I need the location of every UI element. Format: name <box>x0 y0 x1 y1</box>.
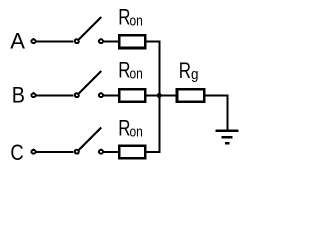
resistor R_g body <box>177 89 204 102</box>
resistor R_on (row B) body <box>119 89 145 102</box>
wire B input to switch <box>37 95 74 97</box>
wire R_g to ground <box>205 96 227 130</box>
wire resistor B to node <box>147 95 160 97</box>
resistor R_g label <box>179 59 199 84</box>
terminal circle B <box>32 93 36 97</box>
svg-text:R: R <box>118 6 130 31</box>
switch SB blade <box>79 71 101 93</box>
switch SB right terminal circle <box>99 93 103 97</box>
node A label <box>10 29 25 54</box>
junction node dot <box>156 92 163 99</box>
switch SA blade <box>79 17 101 39</box>
wire A input to switch <box>37 41 74 43</box>
wire switch A to resistor <box>104 41 118 43</box>
wire resistor A to bus <box>147 41 160 43</box>
resistor R_on (row C) body <box>119 146 145 159</box>
wire C input to switch <box>37 151 74 153</box>
switch SA pivot circle <box>75 39 79 43</box>
wire node to R_g <box>159 95 175 97</box>
svg-text:g: g <box>191 66 199 83</box>
switch SB pivot circle <box>75 93 79 97</box>
wire resistor C to bus <box>147 151 160 153</box>
switch SC right terminal circle <box>99 150 103 154</box>
wire switch C to resistor <box>104 151 118 153</box>
resistor R_on (row B) label <box>118 58 143 83</box>
resistor R_on (row A) label <box>118 6 143 31</box>
svg-text:on: on <box>130 123 143 140</box>
svg-text:C: C <box>10 141 23 165</box>
bus wire (vertical) <box>158 41 160 154</box>
node B label <box>12 84 25 108</box>
svg-text:on: on <box>130 12 143 29</box>
svg-text:R: R <box>118 117 130 142</box>
svg-text:B: B <box>12 84 25 108</box>
svg-text:R: R <box>118 58 130 83</box>
svg-text:on: on <box>130 65 143 82</box>
wire switch B to resistor <box>104 95 118 97</box>
resistor R_on (row A) body <box>119 35 145 48</box>
node C label <box>10 141 23 165</box>
resistor R_on (row C) label <box>118 117 143 142</box>
terminal circle C <box>32 150 36 154</box>
terminal circle A <box>32 39 36 43</box>
switch SC blade <box>79 128 101 150</box>
switch SA right terminal circle <box>99 39 103 43</box>
svg-text:R: R <box>179 59 191 84</box>
ground symbol <box>215 129 238 144</box>
switch SC pivot circle <box>75 150 79 154</box>
svg-text:A: A <box>10 29 25 54</box>
